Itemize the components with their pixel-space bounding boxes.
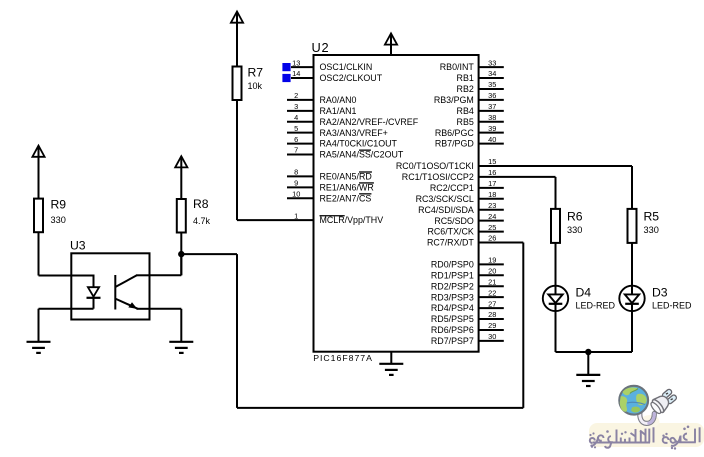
- svg-text:RE1/AN6/WR: RE1/AN6/WR: [320, 182, 374, 192]
- svg-text:15: 15: [488, 157, 496, 166]
- svg-text:21: 21: [488, 277, 496, 286]
- svg-text:RC0/T1OSO/T1CKI: RC0/T1OSO/T1CKI: [396, 161, 474, 171]
- svg-text:5: 5: [294, 124, 298, 133]
- svg-text:4.7k: 4.7k: [193, 216, 211, 226]
- svg-text:RC4/SDI/SDA: RC4/SDI/SDA: [418, 205, 474, 215]
- svg-text:29: 29: [488, 321, 496, 330]
- svg-text:33: 33: [488, 58, 496, 67]
- svg-text:PIC16F877A: PIC16F877A: [313, 353, 373, 363]
- svg-text:D3: D3: [652, 286, 668, 300]
- svg-text:39: 39: [488, 124, 496, 133]
- svg-text:RA3/AN3/VREF+: RA3/AN3/VREF+: [320, 128, 388, 138]
- svg-text:RB2: RB2: [457, 84, 474, 94]
- svg-text:14: 14: [292, 69, 300, 78]
- svg-text:MCLR/Vpp/THV: MCLR/Vpp/THV: [320, 215, 384, 225]
- svg-text:RA1/AN1: RA1/AN1: [320, 106, 357, 116]
- svg-text:330: 330: [567, 225, 582, 235]
- svg-text:R7: R7: [248, 66, 264, 80]
- svg-text:30: 30: [488, 332, 496, 341]
- svg-text:8: 8: [294, 168, 298, 177]
- svg-text:16: 16: [488, 168, 496, 177]
- svg-text:RB3/PGM: RB3/PGM: [434, 95, 474, 105]
- svg-text:17: 17: [488, 179, 496, 188]
- svg-text:U2: U2: [312, 40, 330, 55]
- svg-text:OSC2/CLKOUT: OSC2/CLKOUT: [320, 73, 383, 83]
- svg-text:1: 1: [294, 211, 298, 220]
- svg-text:RB6/PGC: RB6/PGC: [435, 128, 475, 138]
- svg-text:20: 20: [488, 267, 496, 276]
- svg-text:RE0/AN5/RD: RE0/AN5/RD: [320, 172, 372, 182]
- svg-text:R8: R8: [193, 197, 209, 211]
- svg-text:330: 330: [51, 215, 66, 225]
- svg-text:RC1/T1OSI/CCP2: RC1/T1OSI/CCP2: [402, 172, 474, 182]
- svg-text:RD4/PSP4: RD4/PSP4: [431, 303, 474, 313]
- svg-text:RB0/INT: RB0/INT: [440, 62, 475, 72]
- svg-text:10k: 10k: [248, 81, 263, 91]
- svg-text:4: 4: [294, 113, 298, 122]
- svg-text:R6: R6: [567, 209, 583, 223]
- svg-text:38: 38: [488, 113, 496, 122]
- svg-text:19: 19: [488, 256, 496, 265]
- svg-text:RD1/PSP1: RD1/PSP1: [431, 270, 474, 280]
- svg-text:40: 40: [488, 135, 496, 144]
- svg-text:34: 34: [488, 69, 496, 78]
- svg-text:RC7/RX/DT: RC7/RX/DT: [427, 238, 474, 248]
- svg-text:RB5: RB5: [457, 117, 474, 127]
- svg-text:3: 3: [294, 102, 298, 111]
- svg-text:R5: R5: [644, 209, 660, 223]
- svg-text:RB1: RB1: [457, 73, 474, 83]
- svg-text:18: 18: [488, 190, 496, 199]
- svg-text:23: 23: [488, 201, 496, 210]
- svg-text:RA5/AN4/SS/C2OUT: RA5/AN4/SS/C2OUT: [320, 150, 404, 160]
- svg-text:RD3/PSP3: RD3/PSP3: [431, 292, 474, 302]
- svg-text:RB7/PGD: RB7/PGD: [435, 139, 474, 149]
- svg-text:RA4/T0CKI/C1OUT: RA4/T0CKI/C1OUT: [320, 139, 398, 149]
- svg-text:RD0/PSP0: RD0/PSP0: [431, 259, 474, 269]
- svg-text:RB4: RB4: [457, 106, 474, 116]
- svg-text:LED-RED: LED-RED: [576, 300, 616, 310]
- svg-text:13: 13: [292, 58, 300, 67]
- svg-text:RE2/AN7/CS: RE2/AN7/CS: [320, 193, 372, 203]
- svg-text:RC2/CCP1: RC2/CCP1: [430, 183, 474, 193]
- svg-text:RA2/AN2/VREF-/CVREF: RA2/AN2/VREF-/CVREF: [320, 117, 419, 127]
- svg-text:RC3/SCK/SCL: RC3/SCK/SCL: [416, 194, 474, 204]
- svg-text:RC5/SDO: RC5/SDO: [434, 216, 474, 226]
- svg-text:26: 26: [488, 234, 496, 243]
- svg-text:7: 7: [294, 146, 298, 155]
- svg-text:LED-RED: LED-RED: [652, 300, 692, 310]
- svg-text:2: 2: [294, 91, 298, 100]
- svg-text:RD5/PSP5: RD5/PSP5: [431, 314, 474, 324]
- svg-text:U3: U3: [70, 239, 86, 253]
- svg-text:36: 36: [488, 91, 496, 100]
- svg-text:24: 24: [488, 212, 496, 221]
- svg-text:RC6/TX/CK: RC6/TX/CK: [427, 227, 473, 237]
- svg-text:D4: D4: [576, 286, 592, 300]
- svg-text:OSC1/CLKIN: OSC1/CLKIN: [320, 62, 373, 72]
- svg-text:9: 9: [294, 179, 298, 188]
- svg-text:RD6/PSP6: RD6/PSP6: [431, 325, 474, 335]
- svg-text:28: 28: [488, 310, 496, 319]
- svg-text:RA0/AN0: RA0/AN0: [320, 95, 357, 105]
- svg-text:25: 25: [488, 223, 496, 232]
- svg-text:6: 6: [294, 135, 298, 144]
- svg-text:RD7/PSP7: RD7/PSP7: [431, 336, 474, 346]
- svg-text:330: 330: [644, 225, 659, 235]
- svg-text:22: 22: [488, 288, 496, 297]
- svg-text:37: 37: [488, 102, 496, 111]
- svg-text:R9: R9: [51, 198, 67, 212]
- svg-text:RD2/PSP2: RD2/PSP2: [431, 281, 474, 291]
- svg-text:35: 35: [488, 80, 496, 89]
- svg-text:10: 10: [292, 189, 300, 198]
- svg-text:27: 27: [488, 299, 496, 308]
